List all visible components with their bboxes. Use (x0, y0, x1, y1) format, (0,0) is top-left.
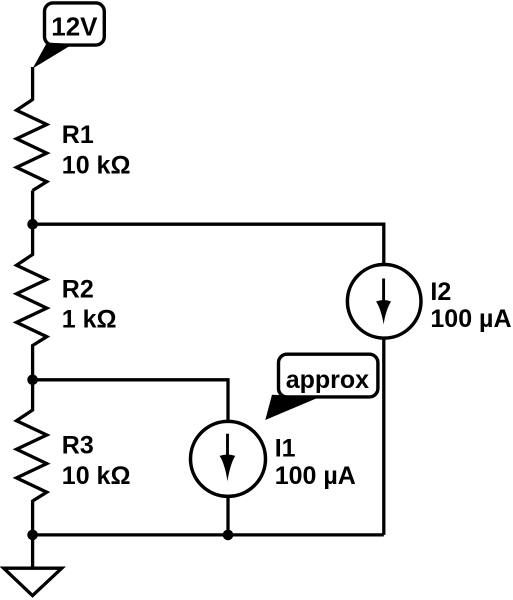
node B junction dot (27, 375, 38, 386)
voltage source label 12V (33, 3, 105, 69)
callout approx (265, 354, 378, 420)
node D junction dot (223, 530, 234, 541)
wire to ground (31, 535, 34, 567)
svg-text:100 µA: 100 µA (275, 462, 356, 490)
wire R1 to node A (31, 191, 34, 225)
svg-text:I2: I2 (430, 278, 451, 306)
label I1 100 uA (275, 434, 356, 490)
current source I1 (191, 421, 266, 496)
svg-text:1 kΩ: 1 kΩ (62, 306, 117, 334)
label R3 10 kOhm (62, 432, 131, 490)
node A junction dot (27, 219, 38, 230)
svg-text:R2: R2 (62, 275, 94, 303)
svg-text:12V: 12V (51, 12, 98, 42)
svg-text:R3: R3 (62, 432, 94, 460)
resistor R2 (17, 224, 47, 380)
svg-text:I1: I1 (275, 434, 296, 462)
svg-text:100 µA: 100 µA (430, 305, 511, 333)
svg-text:10 kΩ: 10 kΩ (62, 151, 131, 179)
label R2 1 kOhm (62, 275, 117, 333)
wire node B to I1 branch (mid rail) (33, 380, 228, 423)
label I2 100 uA (430, 278, 511, 333)
resistor R1 (17, 100, 47, 191)
svg-text:approx: approx (286, 366, 369, 394)
wire 12V to R1 (31, 67, 34, 101)
resistor R3 (17, 380, 47, 535)
wire I1 to bottom rail (226, 495, 229, 535)
wire node A to I2 branch (top rail) (33, 224, 384, 266)
svg-text:10 kΩ: 10 kΩ (62, 462, 131, 490)
label R1 10 kOhm (62, 121, 131, 179)
wire bottom rail (33, 533, 384, 536)
current source I2 (347, 265, 421, 339)
svg-text:R1: R1 (62, 121, 94, 149)
wire I2 to bottom rail (382, 337, 385, 535)
ground (4, 568, 62, 595)
node C junction dot (27, 530, 38, 541)
